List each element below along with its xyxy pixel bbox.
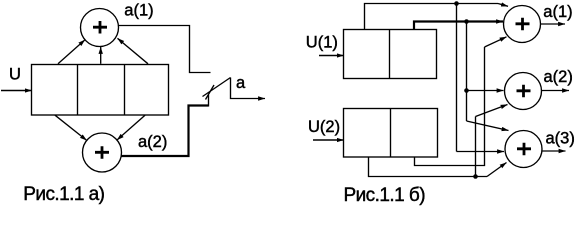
wire: output a arrow (231, 78, 266, 99)
switch SW1 slash (206, 85, 215, 100)
wire: junction to adder U4 (467, 90, 504, 92)
plus sign of adder U2 (95, 146, 109, 159)
adder U5 a(3) (figure b) (505, 131, 542, 168)
svg-text:a(2): a(2) (544, 68, 573, 86)
wire: junction up to adder U4 lower-left (476, 105, 508, 177)
wire: cell2 to adder U1 (100, 47, 102, 64)
wire: cell1 to adder U1 (58, 40, 85, 64)
wire: RG3 cell1 bottom to adder U5 (369, 157, 507, 177)
svg-text:a: a (236, 74, 246, 92)
input arrow U (1, 90, 32, 92)
wire: output arrow a(1) (541, 23, 566, 25)
wire: RG2 cell1 top to adder U3 (365, 4, 509, 30)
wire: adder U2 output to switch bottom contact (121, 106, 209, 157)
wire: RG2 cell2 top to adder U3 (thick) (414, 22, 503, 30)
svg-text:a(1): a(1) (124, 1, 153, 19)
wire: output arrow a(2) (542, 90, 570, 92)
shift register RG1 (figure a) (32, 65, 169, 116)
input arrow U(1) (319, 55, 344, 57)
plus sign of adder U4 (517, 85, 531, 98)
wire: RG3 cell2 bottom to adder U3 lower-left (415, 37, 507, 166)
junction node at a(2) input (464, 88, 469, 93)
plus sign of adder U3 (516, 18, 530, 31)
plus sign of adder U1 (93, 21, 107, 34)
wire: cell1 to adder U2 (55, 115, 87, 140)
plus sign of adder U5 (517, 143, 531, 156)
wire: adder U1 output to switch top contact (118, 26, 210, 73)
junction node at bottom line (473, 174, 478, 179)
adder U2 (bottom, figure a) (83, 133, 122, 172)
svg-text:a(3): a(3) (546, 129, 575, 147)
wire: output arrow a(3) (542, 150, 566, 152)
wire: cell3 to adder U1 (118, 38, 149, 64)
adder U3 a(1) (figure b) (504, 6, 541, 43)
switch SW1 arm (203, 78, 231, 97)
wire: cell3 to adder U2 (117, 115, 145, 140)
svg-text:a(2): a(2) (138, 133, 167, 151)
svg-text:Рис.1.1 б): Рис.1.1 б) (344, 185, 426, 206)
shift register RG3 (figure b, bottom) (344, 109, 438, 158)
shift register RG2 (figure b, top) (344, 30, 437, 79)
svg-text:a(1): a(1) (543, 3, 572, 21)
adder U1 (top, figure a) (81, 9, 119, 47)
svg-text:U: U (9, 65, 21, 83)
adder U4 a(2) (figure b) (505, 73, 542, 110)
svg-text:U(1): U(1) (306, 34, 338, 52)
svg-text:Рис.1.1 а): Рис.1.1 а) (23, 184, 104, 205)
wire: switch bottom contact stub (208, 95, 210, 107)
svg-text:U(2): U(2) (308, 118, 340, 136)
input arrow U(2) (313, 139, 344, 141)
junction node at top line (454, 1, 459, 6)
wire: junction down to adder U5 (457, 4, 505, 152)
wire: junction down to adder U5 upper-left (467, 22, 509, 131)
junction node at thick line (464, 19, 469, 24)
